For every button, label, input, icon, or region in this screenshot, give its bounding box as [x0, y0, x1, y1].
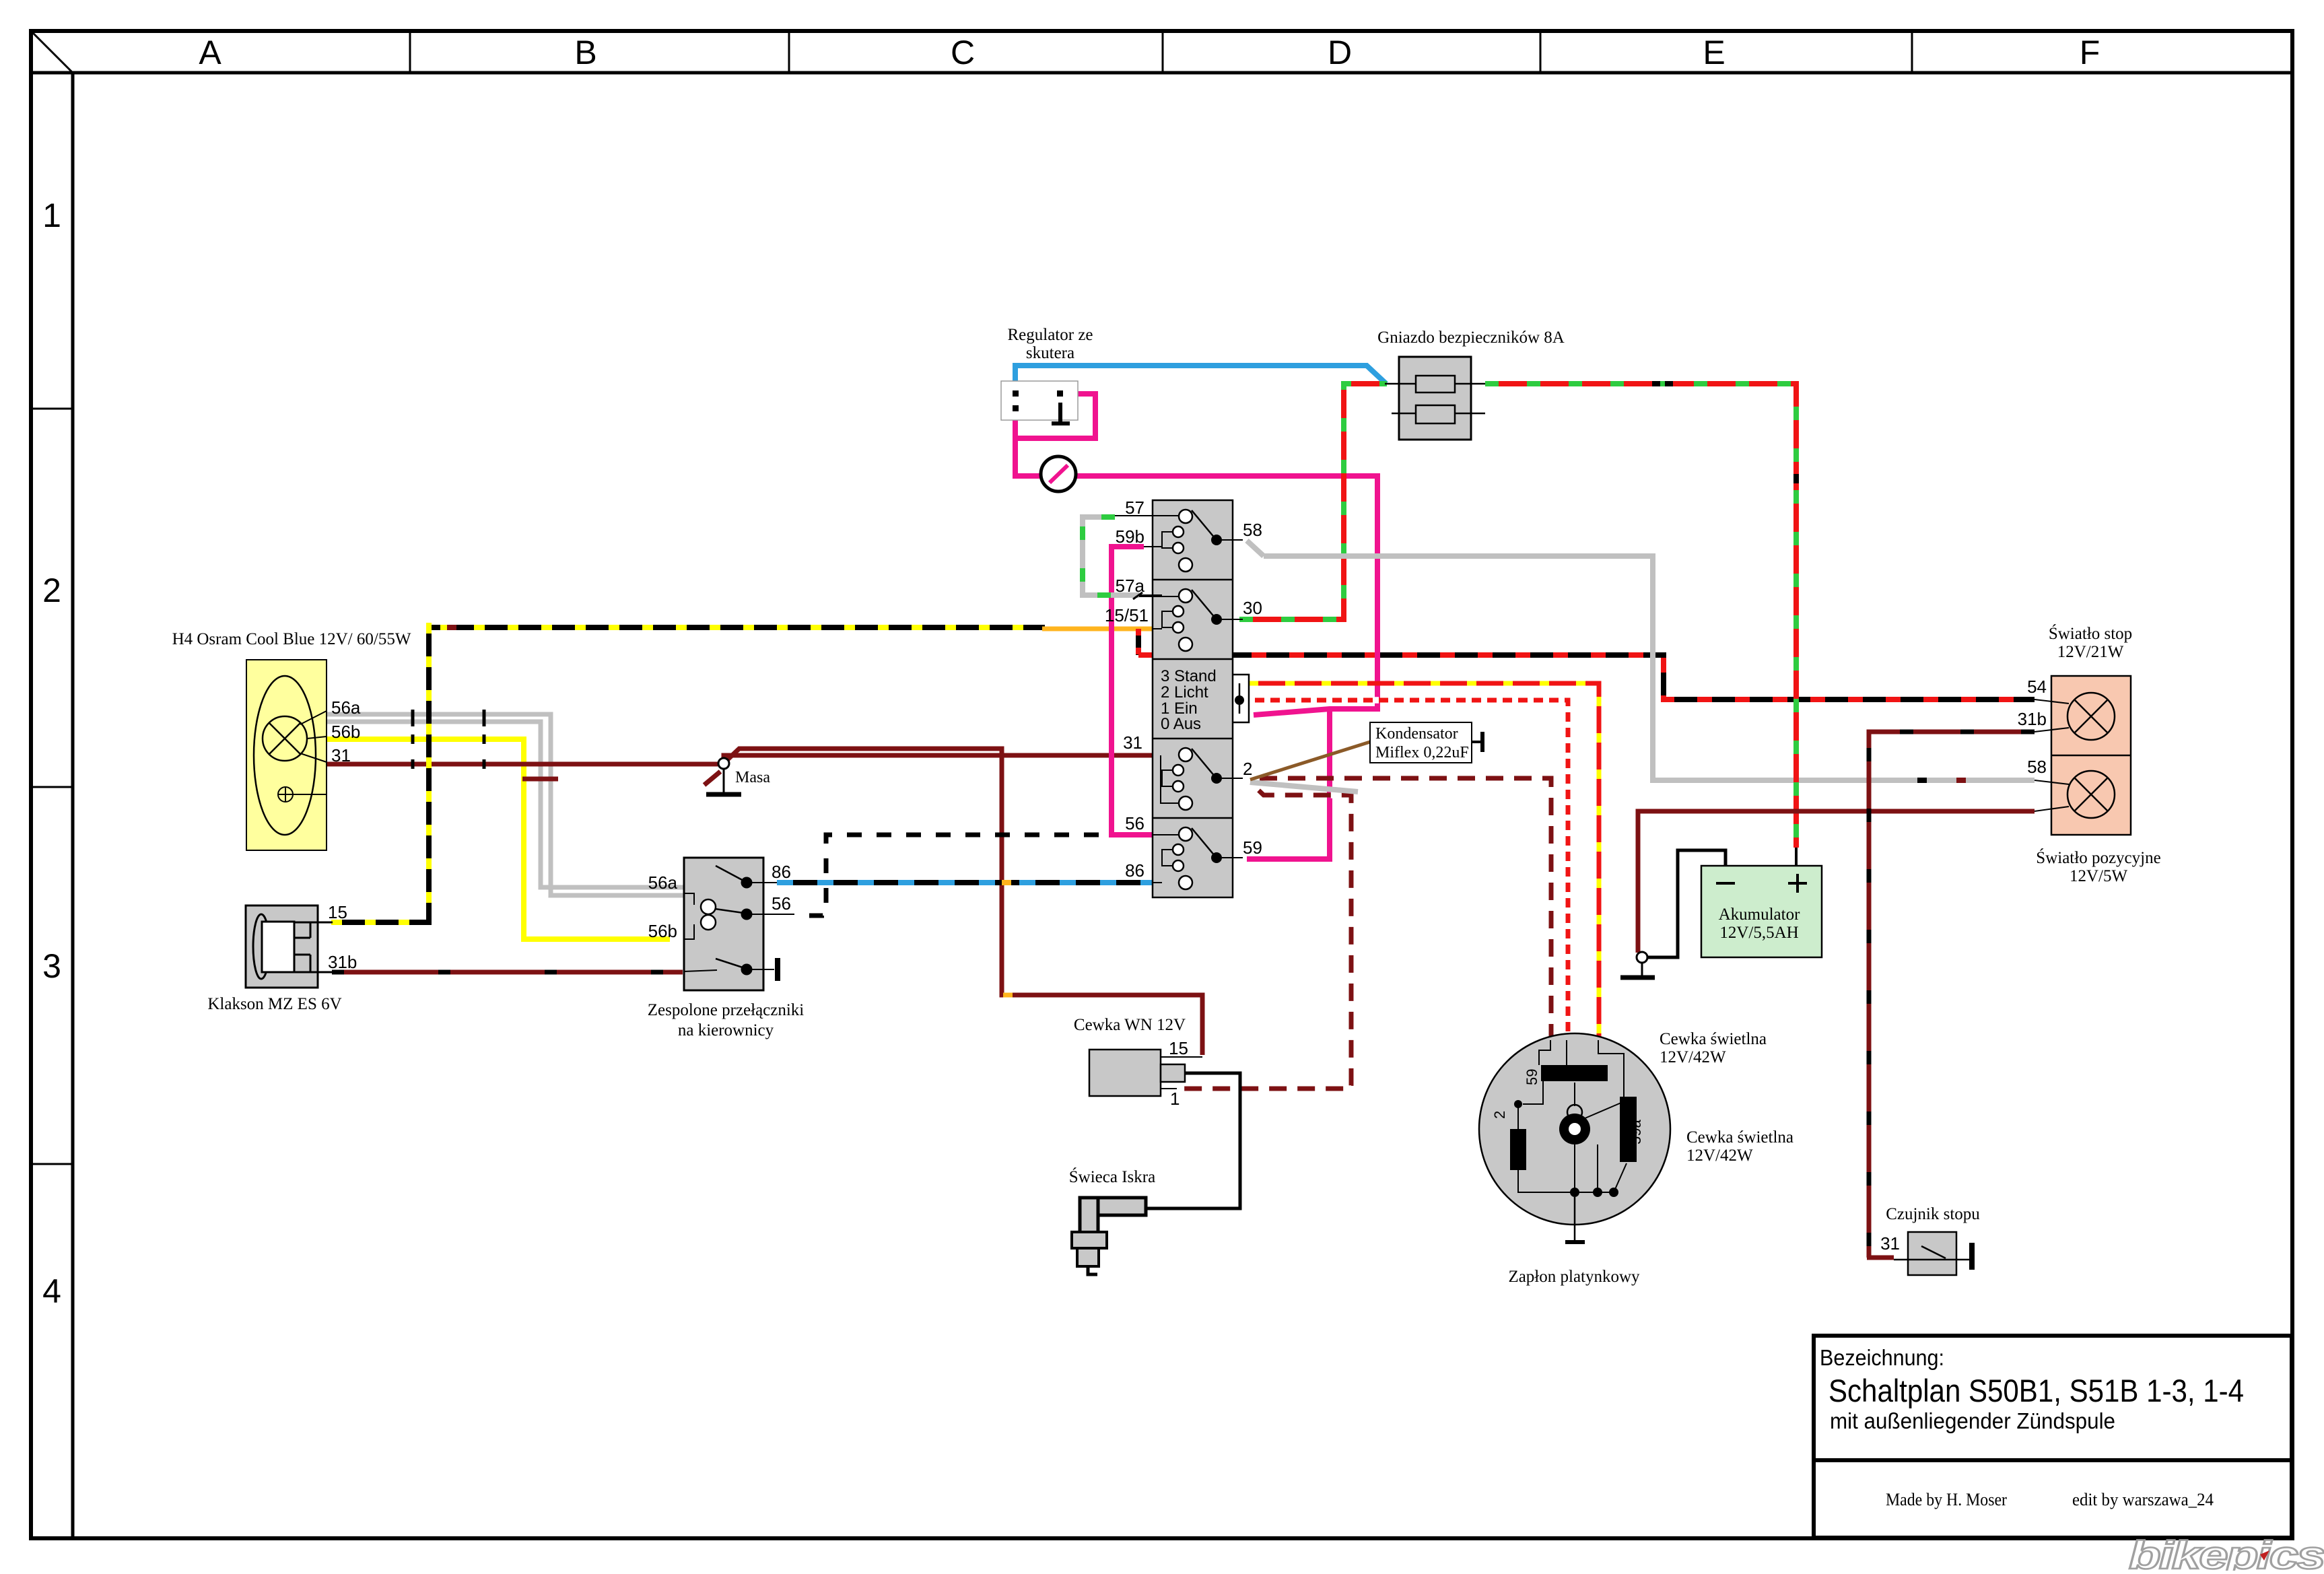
svg-text:58: 58 [1243, 520, 1262, 540]
svg-text:58: 58 [2027, 757, 2047, 777]
svg-text:edit by warszawa_24: edit by warszawa_24 [2072, 1490, 2214, 1509]
svg-text:0 Aus: 0 Aus [1161, 715, 1201, 733]
svg-text:Made by H. Moser: Made by H. Moser [1886, 1490, 2007, 1509]
svg-text:3: 3 [42, 947, 61, 985]
svg-text:Cewka świetlna: Cewka świetlna [1686, 1128, 1793, 1147]
svg-text:56b: 56b [648, 921, 677, 941]
svg-text:4: 4 [42, 1272, 61, 1310]
svg-text:Miflex 0,22uF: Miflex 0,22uF [1375, 744, 1469, 761]
svg-text:54: 54 [2027, 677, 2047, 697]
svg-text:31: 31 [1123, 732, 1142, 753]
svg-text:B: B [574, 34, 596, 71]
svg-text:2: 2 [42, 572, 61, 609]
svg-text:56a: 56a [648, 872, 678, 893]
svg-text:31: 31 [331, 745, 351, 765]
svg-text:Czujnik stopu: Czujnik stopu [1886, 1205, 1980, 1223]
svg-text:2 Licht: 2 Licht [1161, 683, 1208, 702]
svg-text:12V/21W: 12V/21W [2057, 643, 2124, 661]
svg-text:86: 86 [1125, 860, 1144, 881]
svg-text:Kondensator: Kondensator [1375, 725, 1458, 743]
svg-text:Światło stop: Światło stop [2049, 624, 2132, 643]
svg-text:59: 59 [1243, 837, 1262, 858]
svg-text:31b: 31b [328, 952, 357, 972]
svg-text:A: A [199, 34, 221, 71]
svg-text:Akumulator: Akumulator [1719, 905, 1800, 924]
svg-text:E: E [1703, 34, 1725, 71]
svg-text:3 Stand: 3 Stand [1161, 667, 1217, 685]
svg-text:Cewka świetlna: Cewka świetlna [1660, 1030, 1767, 1048]
svg-text:56: 56 [772, 893, 791, 914]
svg-text:2: 2 [1243, 759, 1252, 779]
svg-text:Bezeichnung:: Bezeichnung: [1820, 1345, 1944, 1370]
svg-text:Zespolone przełączniki: Zespolone przełączniki [648, 1001, 805, 1019]
svg-text:Masa: Masa [735, 769, 770, 786]
svg-text:Regulator ze: Regulator ze [1007, 326, 1093, 344]
svg-text:Gniazdo bezpieczników 8A: Gniazdo bezpieczników 8A [1377, 329, 1565, 347]
svg-text:57: 57 [1125, 498, 1144, 518]
svg-text:56a: 56a [331, 697, 361, 718]
svg-text:Schaltplan S50B1, S51B 1-3, 1-: Schaltplan S50B1, S51B 1-3, 1-4 [1829, 1373, 2244, 1408]
svg-text:12V/5,5AH: 12V/5,5AH [1719, 924, 1798, 942]
svg-text:12V/5W: 12V/5W [2070, 867, 2128, 885]
svg-text:mit außenliegender Zündspule: mit außenliegender Zündspule [1830, 1408, 2115, 1433]
svg-text:59a: 59a [1627, 1120, 1644, 1144]
svg-text:bikepics: bikepics [2129, 1534, 2324, 1571]
svg-text:C: C [951, 34, 975, 71]
svg-text:59b: 59b [1116, 526, 1144, 547]
svg-text:31: 31 [1880, 1233, 1900, 1254]
svg-text:15/51: 15/51 [1105, 605, 1149, 625]
svg-text:30: 30 [1243, 598, 1262, 618]
svg-text:15: 15 [328, 902, 347, 922]
svg-text:Świeca Iskra: Świeca Iskra [1069, 1167, 1155, 1186]
svg-text:Światło pozycyjne: Światło pozycyjne [2036, 848, 2160, 867]
svg-text:56b: 56b [331, 722, 360, 742]
svg-text:2: 2 [1491, 1111, 1508, 1119]
svg-text:skutera: skutera [1026, 344, 1074, 362]
svg-text:56: 56 [1125, 813, 1144, 833]
svg-text:F: F [2080, 34, 2100, 71]
svg-text:Cewka WN 12V: Cewka WN 12V [1074, 1016, 1186, 1034]
svg-text:1: 1 [42, 197, 61, 234]
svg-text:12V/42W: 12V/42W [1686, 1147, 1753, 1165]
svg-text:1: 1 [1170, 1089, 1180, 1109]
svg-text:15: 15 [1169, 1038, 1188, 1058]
svg-text:D: D [1328, 34, 1352, 71]
svg-text:Zapłon platynkowy: Zapłon platynkowy [1508, 1268, 1640, 1286]
svg-text:H4 Osram Cool Blue 12V/ 60/55W: H4 Osram Cool Blue 12V/ 60/55W [172, 630, 411, 648]
svg-text:na kierownicy: na kierownicy [678, 1021, 774, 1039]
svg-text:31b: 31b [2018, 709, 2047, 729]
svg-text:86: 86 [772, 862, 791, 882]
svg-text:59: 59 [1524, 1069, 1540, 1085]
svg-text:12V/42W: 12V/42W [1660, 1048, 1726, 1066]
svg-text:Klakson MZ ES 6V: Klakson MZ ES 6V [207, 995, 341, 1013]
